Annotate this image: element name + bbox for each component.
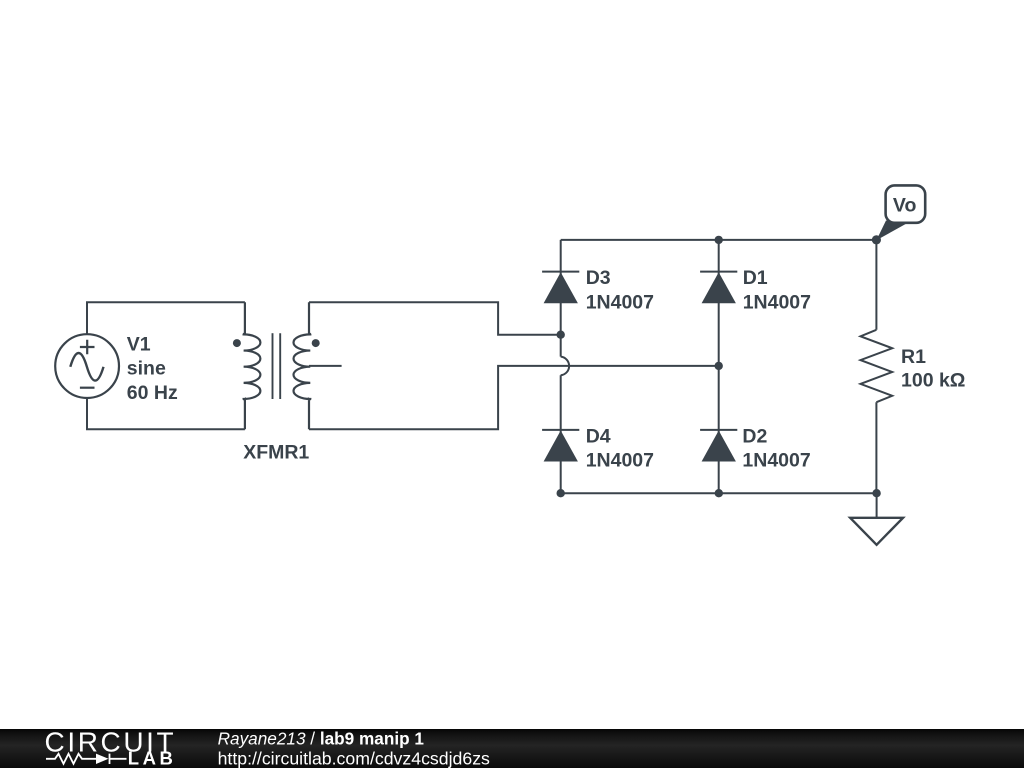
wire primary bottom (87, 398, 245, 429)
junction dots (557, 235, 882, 497)
svg-text:D1: D1 (743, 267, 768, 289)
svg-text:http://circuitlab.com/cdvz4csd: http://circuitlab.com/cdvz4csdjd6zs (218, 748, 490, 768)
svg-text:1N4007: 1N4007 (743, 291, 811, 313)
wire primary top (87, 302, 245, 334)
voltage source V1 (55, 334, 119, 398)
transformer XFMR1 (233, 302, 342, 429)
svg-text:Vo: Vo (893, 194, 917, 216)
svg-text:1N4007: 1N4007 (586, 291, 654, 313)
wire D1 D2 column (718, 240, 720, 493)
wire top rail (561, 239, 877, 241)
svg-text:D4: D4 (586, 425, 611, 447)
resistor R1 (861, 240, 893, 493)
wire secondary top (309, 302, 561, 334)
ground (850, 493, 903, 545)
svg-text:60 Hz: 60 Hz (127, 382, 178, 404)
diode D1 (700, 272, 737, 304)
wire bottom rail (561, 492, 877, 494)
svg-text:sine: sine (127, 358, 166, 380)
logo squiggle (46, 754, 127, 764)
svg-text:100 kΩ: 100 kΩ (901, 369, 965, 391)
svg-text:LAB: LAB (128, 748, 177, 768)
CircuitLab logo (45, 726, 177, 768)
diode D2 (700, 430, 737, 462)
svg-text:1N4007: 1N4007 (742, 450, 810, 472)
wire D4 column lower (560, 375, 562, 493)
credits (218, 729, 490, 768)
svg-text:Rayane213 / lab9 manip 1: Rayane213 / lab9 manip 1 (218, 729, 425, 749)
svg-text:XFMR1: XFMR1 (243, 441, 309, 463)
svg-text:1N4007: 1N4007 (586, 450, 654, 472)
svg-text:D3: D3 (586, 267, 611, 289)
footer bar (0, 729, 1024, 768)
svg-text:D2: D2 (742, 425, 767, 447)
svg-text:R1: R1 (901, 346, 926, 368)
wire D3 column upper (560, 240, 562, 357)
node Vo flag (876, 185, 925, 240)
wire secondary bottom / center rail (309, 366, 719, 429)
diode D3 (542, 272, 579, 304)
wire hop (561, 357, 569, 376)
svg-text:V1: V1 (127, 334, 151, 356)
diode D4 (542, 430, 579, 462)
